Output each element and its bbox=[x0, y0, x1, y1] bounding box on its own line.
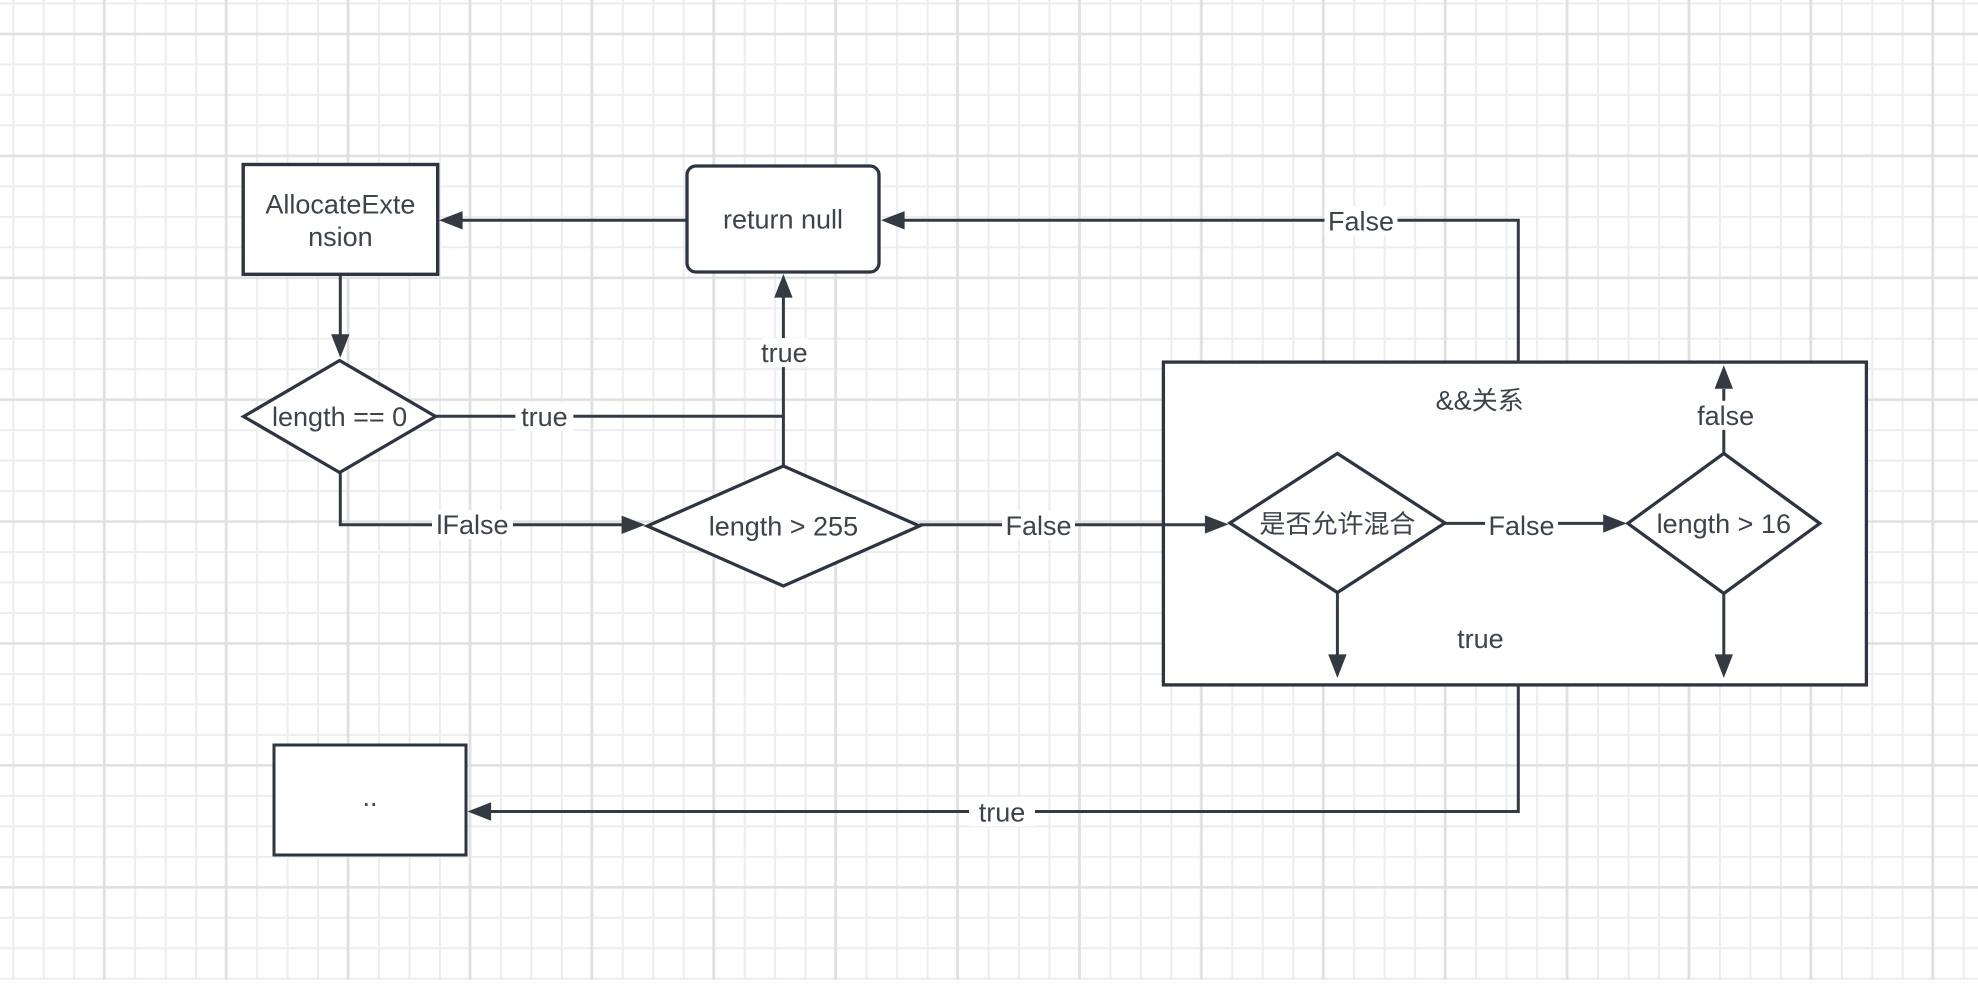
process dots box bbox=[274, 745, 466, 855]
wire E12: container bottom true -> dots box bbox=[468, 684, 1519, 828]
svg-text:true: true bbox=[1457, 624, 1504, 654]
wire E7: allow-mix False -> length>16 bbox=[1445, 511, 1627, 541]
label &&relation title bbox=[1436, 386, 1522, 416]
wire E4: length>255 top -> return null (true) bbox=[761, 274, 808, 467]
svg-text:length == 0: length == 0 bbox=[272, 402, 407, 432]
wire E1: return null -> AllocateExtension bbox=[439, 211, 687, 229]
svg-text:true: true bbox=[521, 402, 568, 432]
svg-text:length > 16: length > 16 bbox=[1657, 509, 1791, 539]
svg-text:false: false bbox=[1697, 401, 1754, 431]
svg-text:lFalse: lFalse bbox=[436, 510, 508, 540]
svg-text:False: False bbox=[1488, 511, 1554, 541]
label true inside container bbox=[1447, 624, 1513, 654]
svg-text:true: true bbox=[979, 797, 1026, 827]
wire E6: length>255 False -> allow-mix bbox=[919, 511, 1228, 541]
svg-text:False: False bbox=[1005, 511, 1071, 541]
svg-text:AllocateExte: AllocateExte bbox=[265, 189, 415, 219]
svg-text:length > 255: length > 255 bbox=[709, 512, 858, 542]
decision length == 0 bbox=[244, 361, 436, 473]
wire E3: length==0 true branch bbox=[436, 402, 785, 432]
wire E10: length>16 false up arrow bbox=[1695, 365, 1757, 453]
decision length > 255 bbox=[647, 466, 919, 586]
svg-text:true: true bbox=[761, 338, 808, 368]
wire E8: allow-mix down arrow bbox=[1328, 593, 1346, 679]
svg-text:False: False bbox=[1328, 207, 1394, 237]
process AllocateExtension bbox=[243, 165, 438, 275]
svg-text:..: .. bbox=[362, 782, 377, 812]
wire E5: length==0 false -> length>255 bbox=[340, 473, 645, 541]
wire E2: AllocateExtension -> length==0 bbox=[331, 274, 349, 358]
svg-text:&&: && bbox=[1436, 386, 1472, 416]
svg-text:nsion: nsion bbox=[308, 222, 373, 252]
decision allow-mix (CJK) bbox=[1230, 454, 1445, 593]
wire E9: length>16 down arrow bbox=[1715, 593, 1733, 678]
container group &&relation bbox=[1163, 362, 1866, 685]
wire E11: container top False -> return null bbox=[881, 207, 1518, 364]
process return null bbox=[687, 166, 879, 272]
decision length > 16 bbox=[1628, 453, 1820, 593]
svg-text:return null: return null bbox=[723, 204, 843, 234]
